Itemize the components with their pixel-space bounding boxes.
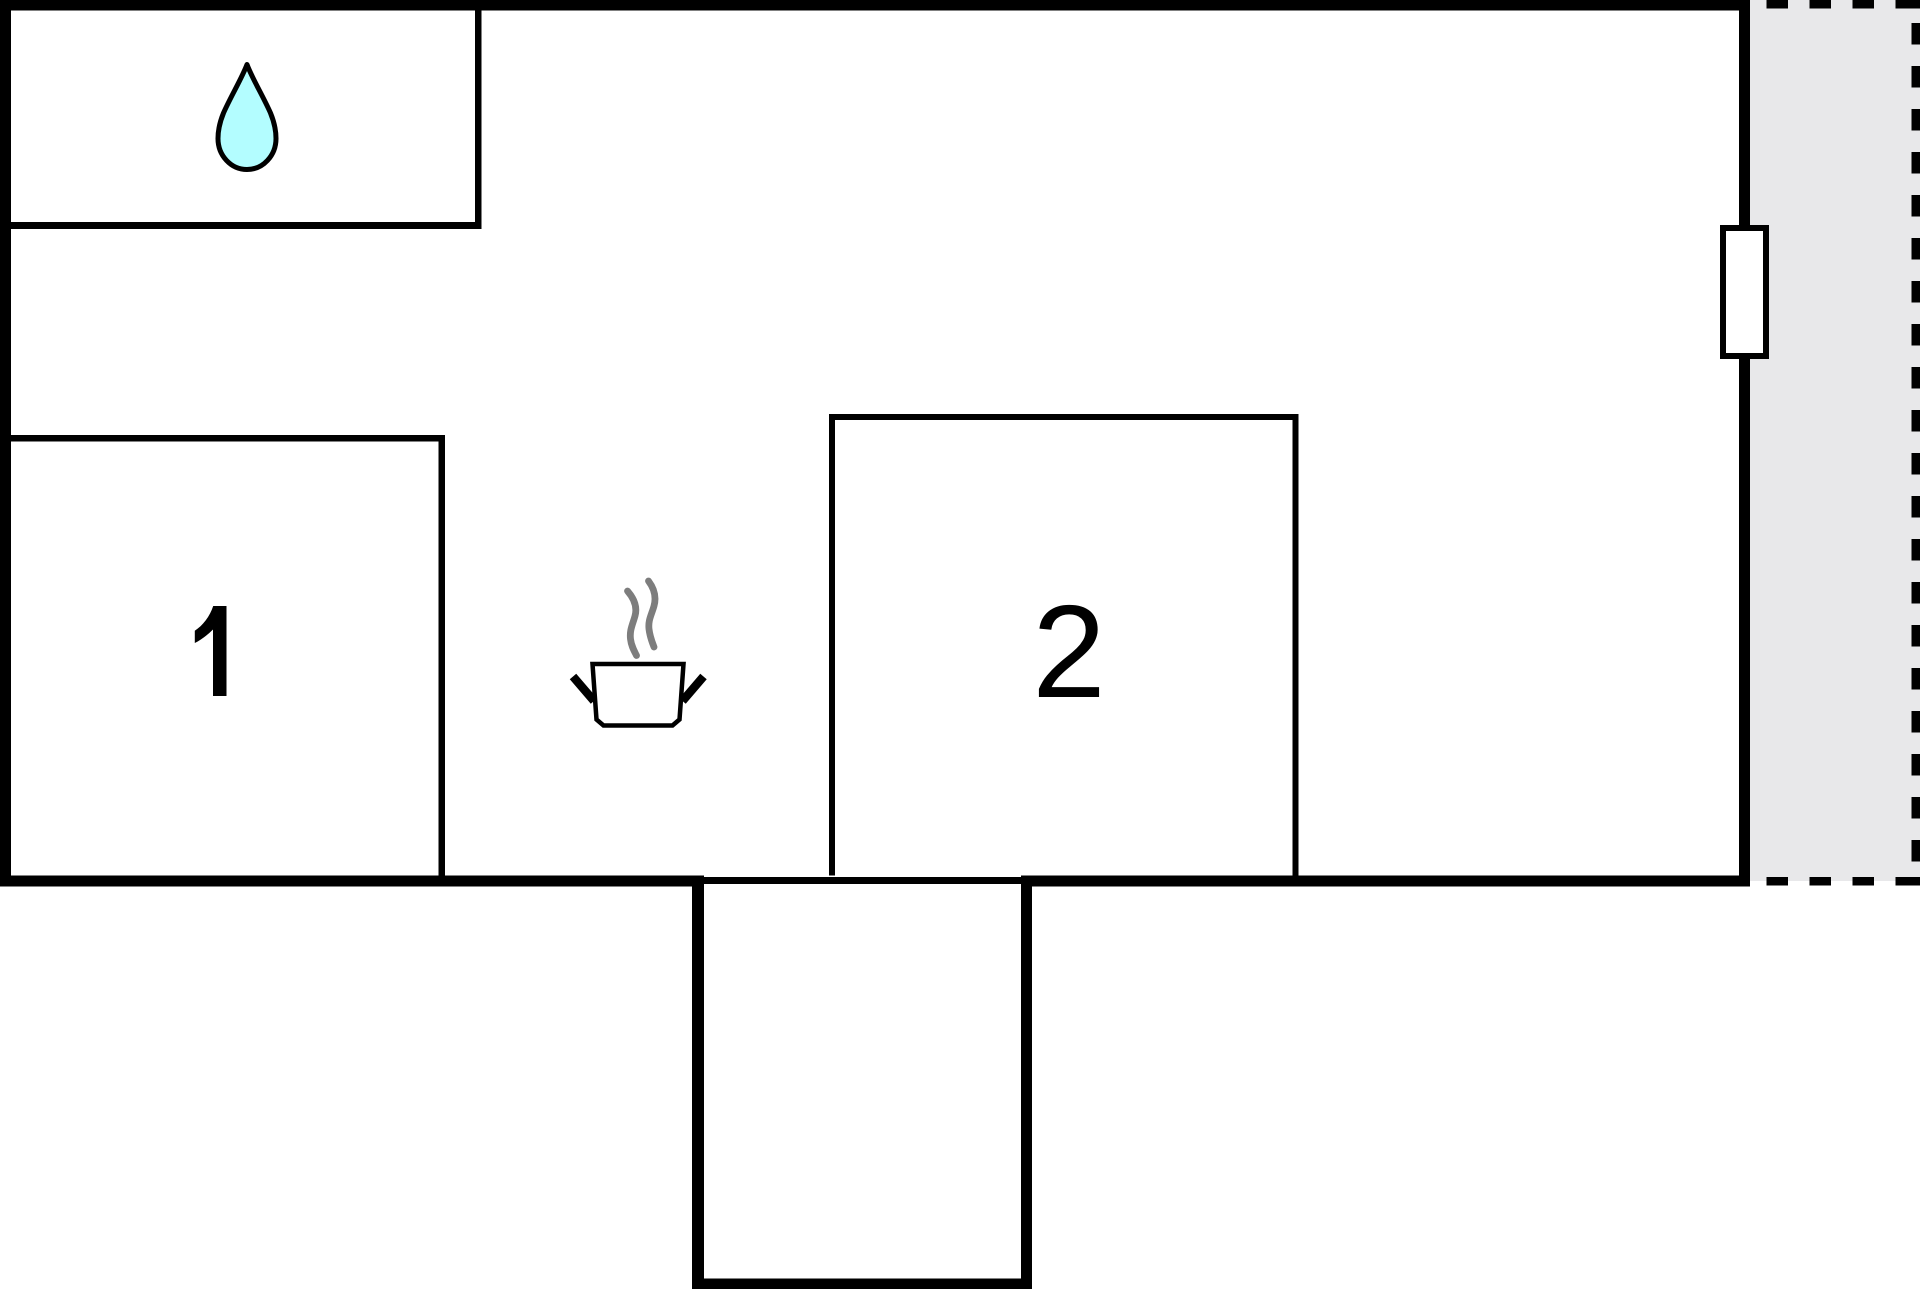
room 2 wall right bbox=[1293, 414, 1299, 876]
cooking pot body bbox=[593, 664, 684, 726]
outer wall left bbox=[0, 0, 11, 887]
label 1 bbox=[195, 606, 227, 696]
outer wall top bbox=[0, 0, 1750, 11]
steam line left bbox=[628, 591, 637, 656]
outer wall bottom right segment bbox=[1021, 876, 1750, 887]
room 2 wall top bbox=[829, 414, 1299, 420]
terrace dashed border right bbox=[1912, 23, 1920, 862]
wall across entrance (thin) bbox=[704, 877, 1021, 884]
cooking pot left handle bbox=[573, 677, 594, 702]
bathroom wall bottom bbox=[0, 222, 482, 229]
entrance wall left bbox=[692, 876, 704, 1289]
entrance wall right bbox=[1021, 876, 1032, 1289]
room 1 wall right bbox=[439, 435, 446, 876]
room 1 wall top bbox=[0, 435, 445, 442]
outer wall bottom left segment bbox=[0, 876, 704, 887]
terrace floor (grey) bbox=[1750, 0, 1920, 881]
bathroom wall right bbox=[475, 0, 482, 229]
water drop icon (bathroom) bbox=[218, 65, 276, 170]
room 2 wall left bbox=[829, 414, 835, 876]
svg-text:2: 2 bbox=[1032, 578, 1105, 725]
entrance wall bottom bbox=[692, 1279, 1032, 1289]
window/door on right wall bbox=[1723, 228, 1766, 356]
steam line right bbox=[649, 581, 656, 647]
cooking pot right handle bbox=[683, 677, 704, 702]
outer wall right bbox=[1739, 0, 1750, 887]
terrace dashed border top bbox=[1767, 0, 1920, 9]
terrace dashed border bottom bbox=[1767, 877, 1920, 886]
